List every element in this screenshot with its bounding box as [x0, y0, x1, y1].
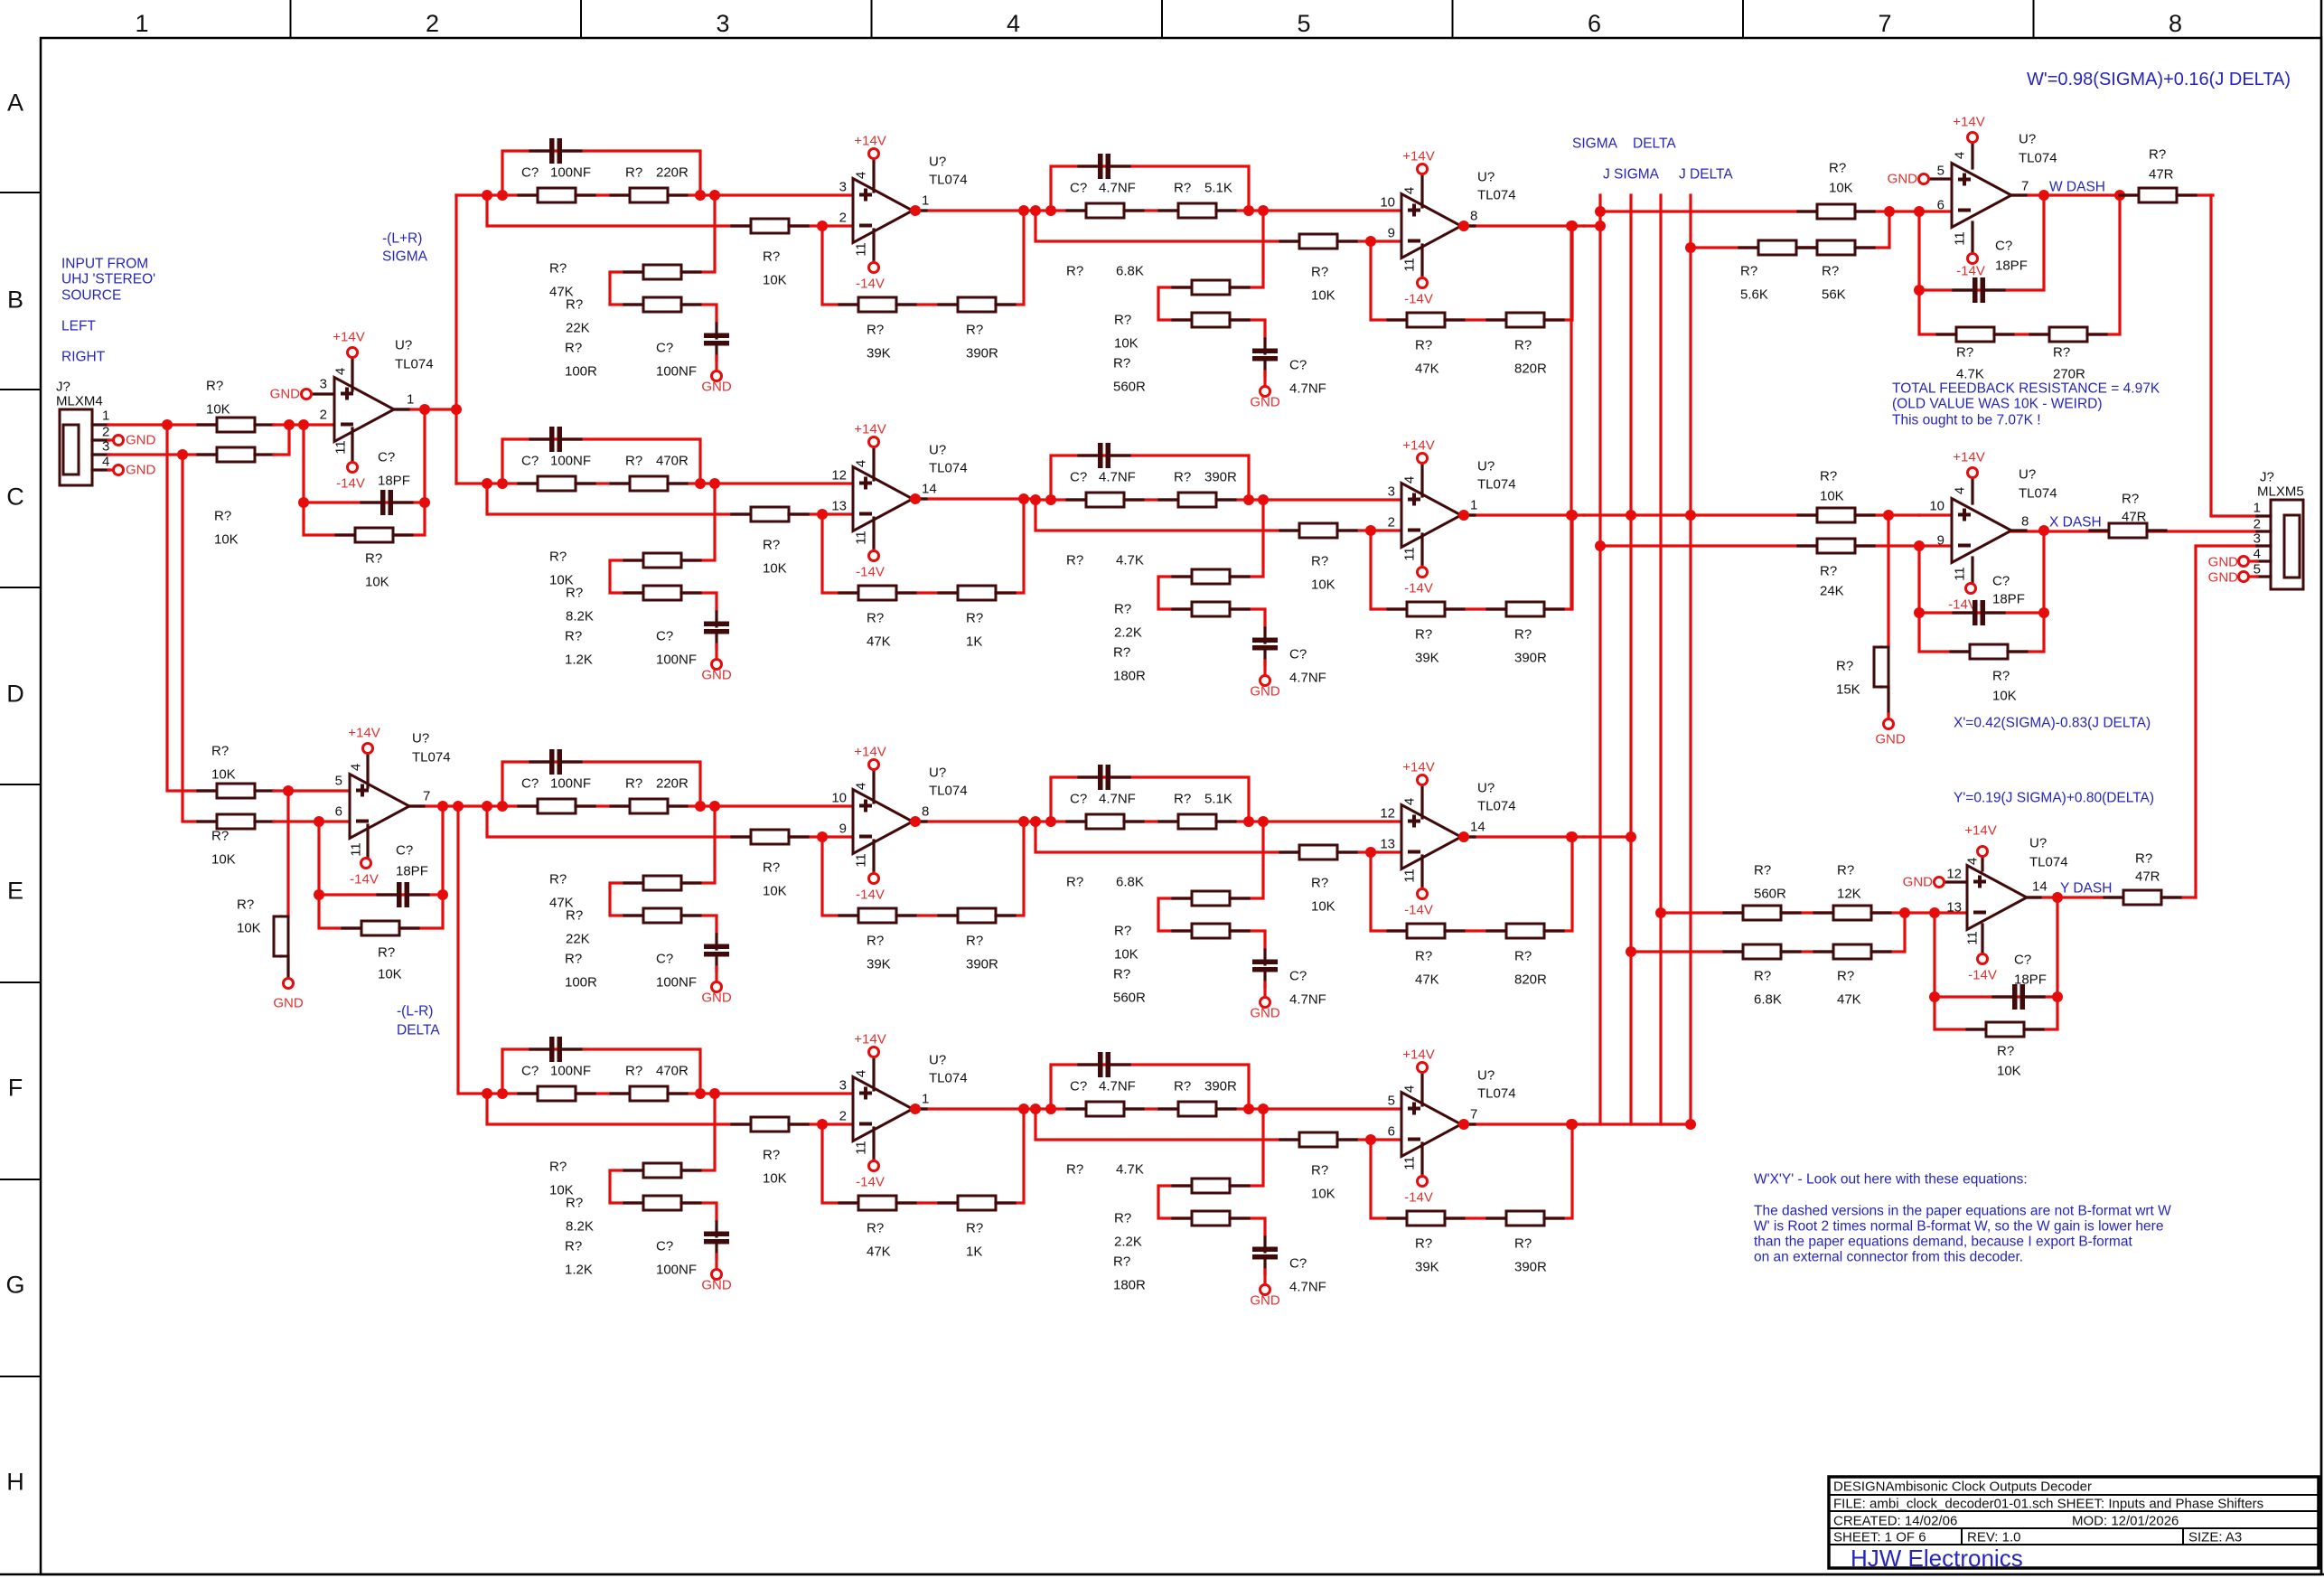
wire DELTA output to bus — [1584, 835, 1631, 838]
junction j-sigma allpass 2 inverting node — [1365, 525, 1376, 536]
svg-text:3: 3 — [839, 1078, 847, 1094]
svg-text:1: 1 — [2254, 501, 2261, 516]
svg-text:W'X'Y' - Look out here with th: W'X'Y' - Look out here with these equati… — [1754, 1172, 2028, 1188]
resistor R? 10K (j-sigma allpass 2 inverting input) — [1280, 523, 1356, 538]
svg-text:R?: R? — [1754, 863, 1771, 878]
svg-text:270R: 270R — [2053, 367, 2085, 382]
svg-text:1.2K: 1.2K — [565, 1263, 593, 1278]
resistor R? 2.2K (j-sigma allpass 2 ladder lower) — [1173, 602, 1249, 616]
resistor R? (j-delta allpass 1 series element 1) — [519, 1086, 595, 1101]
svg-text:+14V: +14V — [1402, 760, 1434, 775]
svg-text:DESIGNAmbisonic Clock Outputs: DESIGNAmbisonic Clock Outputs Decoder — [1833, 1479, 2092, 1495]
wire J SIGMA output row to X' input — [1584, 513, 1919, 516]
svg-text:7: 7 — [1878, 10, 1891, 37]
svg-text:TL074: TL074 — [2019, 486, 2057, 502]
wire Y DASH output — [2027, 896, 2196, 898]
resistor R? 47K (j-delta allpass 1 feedback 1) — [839, 1196, 915, 1210]
wire sigma allpass 2 op-amp V+ pin — [1420, 174, 1423, 207]
capacitor C? 18PF (X' feedback) — [1954, 600, 2004, 625]
svg-text:12: 12 — [1946, 867, 1962, 882]
svg-text:10K: 10K — [1997, 1064, 2021, 1079]
svg-text:24K: 24K — [1820, 584, 1844, 599]
svg-text:U?: U? — [395, 338, 412, 353]
svg-text:470R: 470R — [656, 1064, 689, 1079]
op-amp U? TL074 (j-sigma allpass 1) — [853, 467, 913, 531]
resistor R? 390R (j-sigma allpass 2 series element 2) — [1159, 493, 1235, 507]
svg-text:4: 4 — [1402, 798, 1418, 805]
wire sigma allpass 1 output — [913, 209, 1035, 211]
wire sigma allpass 2 phase ladder — [1158, 211, 1265, 337]
junction j-delta allpass 1 non-inverting node — [695, 1088, 706, 1099]
junction sigma allpass 2 feedback to output — [1567, 221, 1578, 231]
svg-text:1: 1 — [102, 409, 109, 424]
svg-text:390R: 390R — [966, 957, 998, 972]
svg-text:11: 11 — [1402, 547, 1418, 561]
svg-text:GND: GND — [1903, 875, 1934, 890]
ground symbol (MLXM5 pin 4) — [2239, 557, 2249, 567]
svg-text:13: 13 — [1946, 900, 1962, 916]
wire W' + input — [1929, 177, 1952, 180]
svg-text:39K: 39K — [867, 346, 891, 362]
wire SIGMA output to bus — [1584, 224, 1600, 227]
svg-text:C?: C? — [656, 1239, 673, 1254]
svg-text:C?: C? — [521, 1064, 539, 1079]
svg-text:R?: R? — [1837, 863, 1854, 878]
svg-text:1: 1 — [922, 193, 929, 209]
svg-text:-14V: -14V — [1404, 1190, 1433, 1206]
svg-text:C?: C? — [396, 843, 413, 859]
svg-text:14: 14 — [1470, 820, 1485, 835]
resistor R? 8.2K (j-delta allpass 1 ladder lower) — [624, 1196, 700, 1210]
wire RIGHT input (MLXM4 pin3) — [108, 453, 217, 456]
capacitor C? 100NF (j-sigma allpass 1 ladder to ground) — [704, 612, 729, 649]
resistor R? 10K (RIGHT input to amp2) — [198, 814, 274, 829]
capacitor C? 100NF (sigma allpass 1 bypass) — [530, 138, 581, 164]
svg-text:R?: R? — [1415, 627, 1432, 643]
wire j-delta allpass 1 phase ladder — [610, 1094, 717, 1220]
svg-text:R?: R? — [565, 952, 582, 967]
svg-text:18PF: 18PF — [396, 864, 428, 879]
svg-text:1: 1 — [135, 10, 148, 37]
svg-text:4: 4 — [1953, 487, 1968, 494]
svg-text:10: 10 — [1380, 195, 1395, 211]
svg-text:R?: R? — [1311, 876, 1328, 891]
wire Y' feedback loop — [1935, 897, 2057, 1029]
wire j-delta allpass 2 op-amp V- stub — [1420, 1174, 1423, 1178]
svg-text:R?: R? — [566, 297, 583, 313]
svg-text:R?: R? — [1829, 161, 1846, 176]
svg-text:U?: U? — [929, 1053, 946, 1068]
svg-text:4: 4 — [854, 172, 869, 179]
wire X' feedback loop — [1919, 531, 2044, 652]
svg-text:-14V: -14V — [1404, 292, 1433, 307]
capacitor C? 100NF (j-delta allpass 1 ladder to ground) — [704, 1222, 729, 1259]
svg-text:12: 12 — [831, 468, 847, 484]
wire delta allpass 1 op-amp V- stub — [872, 871, 875, 875]
capacitor C? 100NF (delta allpass 1 bypass) — [530, 749, 581, 775]
junction amp1 output feedback — [419, 404, 430, 415]
svg-text:10K: 10K — [1829, 181, 1853, 196]
ground symbol (MLXM4 pin 4) — [114, 465, 124, 475]
wire j-sigma allpass 1 op-amp V+ pin — [872, 447, 875, 480]
svg-text:+14V: +14V — [1402, 149, 1434, 164]
junction delta allpass 1 inverting node — [817, 831, 828, 842]
svg-text:R?: R? — [1066, 875, 1083, 890]
wire J DELTA bus — [1689, 195, 1691, 1124]
resistor R? 5.1K (delta allpass 2 series element 2) — [1159, 814, 1235, 829]
svg-text:10K: 10K — [763, 884, 787, 899]
junction j-sigma allpass 1 ladder tap — [709, 478, 720, 489]
svg-text:TL074: TL074 — [929, 1071, 968, 1086]
svg-text:3: 3 — [1388, 484, 1395, 500]
power -14V symbol (j-delta allpass 1) — [869, 1161, 879, 1171]
svg-text:6.8K: 6.8K — [1116, 264, 1144, 279]
svg-text:10K: 10K — [1114, 947, 1139, 963]
svg-text:47K: 47K — [1837, 992, 1861, 1008]
capacitor C? 4.7NF (j-delta allpass 2 ladder to ground) — [1252, 1237, 1278, 1274]
resistor R? 5.1K (sigma allpass 2 series element 2) — [1159, 203, 1235, 218]
junction j-sigma allpass 1 non-inverting node — [695, 478, 706, 489]
svg-text:C?: C? — [656, 952, 673, 967]
svg-text:J?: J? — [2260, 470, 2274, 485]
svg-text:GND: GND — [2208, 555, 2239, 570]
wire j-sigma allpass 2 op-amp V+ pin — [1420, 464, 1423, 496]
title block — [1829, 1477, 2319, 1568]
svg-text:+14V: +14V — [854, 422, 886, 437]
svg-text:W'=0.98(SIGMA)+0.16(J DELTA): W'=0.98(SIGMA)+0.16(J DELTA) — [2027, 70, 2291, 89]
svg-text:R?: R? — [565, 341, 582, 356]
capacitor C? 100NF (delta allpass 1 ladder to ground) — [704, 935, 729, 972]
resistor R? (delta allpass 1 series element 1) — [519, 799, 595, 813]
resistor R? (j-sigma allpass 2 series element 1) — [1067, 493, 1143, 507]
wire delta allpass 2 to op-amp -input — [1371, 850, 1401, 853]
wire W' J DELTA input row — [1691, 211, 1889, 248]
svg-text:11: 11 — [1953, 567, 1968, 581]
svg-text:R?: R? — [1997, 1044, 2014, 1059]
svg-text:4: 4 — [349, 764, 364, 771]
svg-text:R?: R? — [966, 611, 983, 626]
wire LEFT input (MLXM4 pin1) — [108, 423, 217, 426]
wire amp1 output stub — [394, 408, 408, 410]
svg-text:R?: R? — [1113, 356, 1130, 371]
svg-text:R?: R? — [2122, 492, 2139, 507]
svg-text:U?: U? — [1477, 781, 1495, 796]
resistor R? 22K (delta allpass 1 ladder lower) — [624, 908, 700, 923]
svg-text:11: 11 — [854, 242, 869, 257]
svg-text:This ought to be 7.07K !: This ought to be 7.07K ! — [1892, 413, 2041, 428]
wire j-sigma allpass 1 output stub — [913, 497, 926, 500]
junction j-sigma allpass 2 feedback to output — [1567, 510, 1578, 521]
svg-text:DELTA: DELTA — [1633, 136, 1676, 152]
svg-text:R?: R? — [211, 829, 229, 844]
junction X' feedback cap left — [1914, 607, 1925, 618]
wire W DASH to connector pin1 — [2211, 195, 2257, 516]
svg-text:9: 9 — [1937, 533, 1944, 549]
wire delta allpass 2 main row — [1035, 820, 1263, 822]
wire j-delta allpass 1 op-amp V+ pin — [872, 1057, 875, 1090]
wire J SIGMA bus — [1659, 195, 1662, 1124]
wire delta allpass 1 inverting input rail — [487, 806, 822, 837]
resistor R? 10K (X' feedback) — [1951, 644, 2027, 659]
svg-text:R?: R? — [1514, 949, 1532, 964]
svg-text:Y DASH: Y DASH — [2060, 881, 2112, 897]
junction chain2 output at feedback drop — [1566, 510, 1577, 521]
junction j-delta allpass 1 output pin — [910, 1104, 921, 1114]
svg-text:R?: R? — [1311, 554, 1328, 569]
wire amp2 V+ pin — [366, 754, 369, 787]
svg-text:W' is Root 2 times normal B-fo: W' is Root 2 times normal B-format W, so… — [1754, 1219, 2163, 1235]
ground symbol (j-delta allpass 1 ladder) — [712, 1270, 722, 1280]
svg-text:C?: C? — [1995, 239, 2012, 254]
resistor R? 47K (Y' from DELTA) — [1814, 944, 1890, 959]
svg-text:5.1K: 5.1K — [1204, 792, 1232, 807]
wire J DELTA output to bus — [1584, 1122, 1691, 1125]
svg-text:GND: GND — [701, 991, 732, 1006]
svg-text:18PF: 18PF — [378, 474, 410, 489]
op-amp U? TL074 (X' summer) — [1952, 499, 2011, 563]
wire sigma allpass 2 output stub — [1461, 224, 1475, 227]
resistor R? 4.7K (W' feedback) — [1937, 327, 2013, 342]
svg-text:R?: R? — [867, 1221, 884, 1236]
wire Y' output stub — [2027, 896, 2040, 898]
svg-text:10K: 10K — [1311, 288, 1335, 304]
junction amp2 output feedback — [437, 801, 448, 812]
resistor R? 220R (delta allpass 1 series element 2) — [611, 799, 687, 813]
wire sigma allpass 2 feedback loop — [1371, 226, 1572, 320]
junction RIGHT input — [177, 449, 188, 460]
svg-text:R?: R? — [867, 611, 884, 626]
junction j-delta allpass 1 feedback to output — [1018, 1104, 1029, 1114]
resistor R? 15K (X' divider) — [1874, 647, 1888, 687]
svg-text:U?: U? — [929, 443, 946, 458]
svg-text:C?: C? — [521, 776, 539, 792]
wire Y' inverting input row A — [1661, 911, 1905, 914]
svg-text:+14V: +14V — [854, 1032, 886, 1047]
svg-text:12: 12 — [1380, 806, 1395, 822]
wire W' V- pin — [1971, 222, 1973, 253]
wire W' output stub — [2011, 193, 2026, 196]
svg-text:R?: R? — [1114, 924, 1131, 939]
junction j-delta allpass 2 inverting node — [1365, 1134, 1376, 1145]
wire W' feedback cap row — [1919, 195, 2044, 290]
svg-text:X DASH: X DASH — [2049, 515, 2102, 531]
svg-text:U?: U? — [412, 731, 429, 747]
svg-text:A: A — [7, 89, 23, 117]
svg-text:8.2K: 8.2K — [566, 609, 594, 625]
svg-text:100R: 100R — [565, 975, 597, 991]
capacitor C? 4.7NF (j-sigma allpass 2 bypass) — [1079, 443, 1129, 468]
resistor R? 5.6K (W' from J DELTA) — [1739, 240, 1815, 255]
svg-text:R?: R? — [237, 897, 254, 913]
wire X' V+ pin — [1971, 478, 1973, 503]
node j-delta allpass 1 input junction — [482, 1088, 492, 1099]
svg-text:6.8K: 6.8K — [1116, 875, 1144, 890]
svg-text:4.7NF: 4.7NF — [1099, 181, 1136, 196]
wire delta allpass 1 op-amp V+ pin — [872, 770, 875, 803]
resistor R? (sigma allpass 1 series element 1) — [519, 188, 595, 202]
svg-text:TL074: TL074 — [929, 784, 968, 799]
junction bus to X' inverting input — [1595, 540, 1606, 551]
svg-text:4: 4 — [854, 1070, 869, 1077]
svg-text:GND: GND — [1250, 1293, 1280, 1309]
svg-text:R?: R? — [1113, 967, 1130, 982]
power +14V symbol (j-sigma allpass 2) — [1418, 454, 1428, 464]
resistor R? 470R (j-sigma allpass 1 series element 2) — [611, 476, 687, 491]
svg-text:3: 3 — [320, 377, 327, 392]
svg-text:C?: C? — [1992, 574, 2010, 589]
svg-text:47K: 47K — [867, 634, 891, 650]
resistor R? 10K (delta allpass 2 ladder lower) — [1173, 924, 1249, 938]
svg-text:22K: 22K — [566, 932, 590, 947]
wire W' inverting input row — [1600, 210, 1919, 212]
svg-text:15K: 15K — [1836, 682, 1860, 698]
wire amp1 inverting input — [274, 423, 334, 426]
svg-text:11: 11 — [854, 1141, 869, 1155]
wire j-delta allpass 1 inverting input rail — [487, 1094, 822, 1124]
svg-text:R?: R? — [763, 1148, 780, 1163]
wire amp1 feedback loop — [304, 409, 425, 535]
svg-text:GND: GND — [126, 463, 156, 478]
svg-text:+14V: +14V — [1953, 115, 1984, 130]
junction j-delta allpass 1 inverting node — [817, 1119, 828, 1130]
svg-text:TL074: TL074 — [1477, 477, 1516, 493]
svg-text:R?: R? — [763, 249, 780, 265]
svg-text:G: G — [5, 1272, 24, 1299]
svg-text:14: 14 — [922, 482, 937, 497]
svg-text:560R: 560R — [1113, 380, 1146, 395]
svg-text:2.2K: 2.2K — [1114, 1235, 1142, 1250]
resistor R? 4.7K (j-sigma allpass 2 ladder upper) — [1173, 569, 1249, 584]
svg-text:4: 4 — [102, 455, 109, 470]
svg-text:8: 8 — [2021, 514, 2029, 530]
svg-text:820R: 820R — [1514, 362, 1547, 377]
power +14V symbol (amp2) — [363, 744, 373, 754]
wire delta allpass 1 bypass loop — [502, 762, 700, 806]
svg-text:4: 4 — [1402, 476, 1418, 484]
svg-text:7: 7 — [2021, 179, 2029, 194]
svg-text:J?: J? — [56, 380, 70, 395]
svg-text:GND: GND — [1888, 172, 1918, 187]
resistor R? 390R (j-delta allpass 2 feedback 2) — [1487, 1211, 1563, 1226]
power -14V symbol (X') — [1966, 584, 1976, 594]
svg-text:4.7NF: 4.7NF — [1099, 470, 1136, 485]
svg-text:GND: GND — [701, 1278, 732, 1293]
svg-text:10K: 10K — [206, 402, 230, 418]
svg-text:UHJ 'STEREO': UHJ 'STEREO' — [61, 272, 155, 287]
svg-text:R?: R? — [2149, 147, 2166, 163]
resistor R? 47R (Y' output) — [2104, 890, 2180, 905]
svg-text:1K: 1K — [966, 634, 982, 650]
wire delta allpass 2 ladder cap to ground — [1263, 982, 1266, 997]
svg-text:8: 8 — [922, 804, 929, 820]
svg-text:R?: R? — [625, 165, 642, 181]
wire X' feedback cap row — [1919, 611, 2044, 614]
svg-text:C?: C? — [656, 341, 673, 356]
wire sigma allpass 1 main row — [487, 193, 715, 196]
svg-text:-14V: -14V — [856, 888, 885, 903]
svg-text:2: 2 — [102, 425, 109, 440]
junction j-delta allpass 1 bypass tap — [497, 1088, 508, 1099]
resistor R? 47K (j-sigma allpass 1 feedback 1) — [839, 586, 915, 600]
svg-text:U?: U? — [2019, 467, 2036, 483]
svg-text:47K: 47K — [867, 1245, 891, 1260]
svg-text:R?: R? — [1514, 1236, 1532, 1252]
svg-text:TL074: TL074 — [929, 461, 968, 476]
wire MLXM5 pin5 to ground — [2248, 575, 2257, 578]
resistor R? 2.2K (j-delta allpass 2 ladder lower) — [1173, 1211, 1249, 1226]
svg-text:R?: R? — [1956, 345, 1973, 361]
wire delta allpass 2 feedback loop — [1371, 837, 1572, 931]
svg-text:11: 11 — [333, 440, 349, 455]
wire W DASH output — [2011, 193, 2213, 196]
junction X' inverting node — [1914, 540, 1925, 551]
junction j-sigma allpass 1 output pin — [910, 493, 921, 504]
svg-text:+14V: +14V — [333, 330, 364, 345]
svg-text:-14V: -14V — [1968, 968, 1997, 983]
svg-text:U?: U? — [1477, 170, 1495, 185]
wire bus drop x1739 (sigma feedback extension) — [1570, 226, 1572, 609]
svg-text:+14V: +14V — [854, 134, 886, 149]
wire delta allpass 1 output stub — [913, 820, 926, 822]
svg-text:10K: 10K — [763, 1171, 787, 1187]
svg-text:C?: C? — [656, 629, 673, 644]
junction sigma allpass 1 feedback to output — [1018, 205, 1029, 216]
junction sigma allpass 2 ladder tap — [1258, 205, 1269, 216]
svg-text:8: 8 — [1470, 209, 1477, 224]
svg-text:R?: R? — [549, 1160, 567, 1175]
svg-text:9: 9 — [1388, 226, 1395, 241]
svg-text:10K: 10K — [1311, 1187, 1335, 1202]
resistor R? 820R (sigma allpass 2 feedback 2) — [1487, 313, 1563, 327]
wire j-delta allpass 2 bypass loop — [1051, 1065, 1249, 1109]
svg-text:R?: R? — [214, 509, 231, 524]
resistor R? 39K (sigma allpass 1 feedback 1) — [839, 297, 915, 312]
resistor R? 10K (LEFT input to amp2) — [198, 784, 274, 798]
junction amp1 inverting node — [284, 419, 295, 430]
svg-text:F: F — [8, 1075, 23, 1102]
junction j-delta allpass 2 feedback to output — [1567, 1119, 1578, 1130]
svg-text:R?: R? — [1740, 264, 1757, 279]
svg-text:-14V: -14V — [336, 476, 365, 492]
junction W' inverting node — [1914, 206, 1925, 217]
power -14V symbol (sigma allpass 2) — [1418, 278, 1428, 288]
wire amp1 + input — [312, 392, 334, 395]
resistor R? (j-sigma allpass 1 series element 1) — [519, 476, 595, 491]
svg-text:GND: GND — [1250, 684, 1280, 700]
junction j-delta allpass 2 ladder tap — [1258, 1104, 1269, 1114]
wire j-delta allpass 2 phase ladder — [1158, 1109, 1265, 1235]
resistor R? 10K (j-delta allpass 1 inverting input) — [732, 1117, 808, 1132]
junction chain2 output row at DELTA bus — [1626, 510, 1636, 521]
junction amp2 feedback tap — [314, 816, 324, 827]
svg-text:14: 14 — [2032, 879, 2048, 895]
svg-text:470R: 470R — [656, 454, 689, 469]
svg-text:C?: C? — [1070, 181, 1087, 196]
svg-text:4: 4 — [854, 460, 869, 467]
wire sigma allpass 1 to op-amp +input — [715, 193, 853, 196]
svg-text:R?: R? — [867, 934, 884, 949]
junction j-sigma allpass 1 feedback to output — [1018, 493, 1029, 504]
junction amp2 output to chain4 — [453, 801, 464, 812]
wire j-sigma allpass 1 inverting input rail — [487, 484, 822, 514]
wire delta allpass 2 op-amp V- stub — [1420, 887, 1423, 890]
resistor R? 10K (j-delta allpass 2 inverting input) — [1280, 1132, 1356, 1147]
svg-text:X'=0.42(SIGMA)-0.83(J DELTA): X'=0.42(SIGMA)-0.83(J DELTA) — [1954, 716, 2151, 731]
junction J DELTA output at feedback drop — [1566, 1119, 1577, 1130]
svg-text:47K: 47K — [1415, 362, 1439, 377]
capacitor C? 4.7NF (delta allpass 2 ladder to ground) — [1252, 950, 1278, 987]
wire X' V- pin — [1971, 558, 1973, 583]
